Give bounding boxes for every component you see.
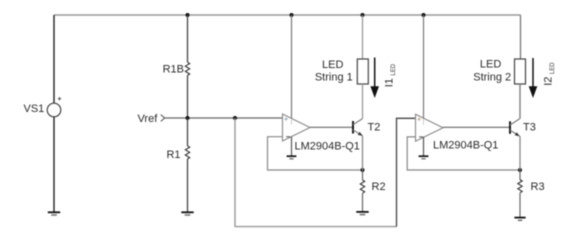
wire Vref to op-amp1 non-inverting input <box>165 117 283 119</box>
op-amp U2 <box>416 114 444 141</box>
wire T2 emitter down to node <box>362 136 364 170</box>
transistor T2 <box>353 119 363 136</box>
wire Vref feed to op-amp2: down, across bottom, up <box>235 118 397 227</box>
op-amp U1 <box>283 114 311 141</box>
wire emitter node to R3 <box>519 170 521 180</box>
wire op-amp1 V+ supply stem <box>291 15 293 119</box>
LED string 1 block <box>357 59 368 84</box>
ground op-amp2 <box>419 156 429 159</box>
wire LED string 2 to T3 collector <box>519 84 521 119</box>
svg-text:T3: T3 <box>523 122 536 134</box>
svg-text:VS1: VS1 <box>24 103 45 115</box>
ground R3 <box>514 218 525 221</box>
svg-text:Vref: Vref <box>138 113 159 125</box>
node emitter R2 junction <box>361 168 365 172</box>
node Vref divider junction <box>186 116 190 120</box>
wire R3 bottom lead <box>519 193 521 217</box>
ground R1 <box>181 212 193 215</box>
wire op-amp1 output to T2 base <box>310 126 353 128</box>
wire T3 emitter down to node <box>519 136 521 170</box>
wire op-amp2 output to T3 base <box>443 126 510 128</box>
svg-text:LM2904B-Q1: LM2904B-Q1 <box>433 140 498 152</box>
wire emitter node to R2 <box>362 170 364 180</box>
wire Vref rise to op-amp2 non-inverting input <box>397 118 416 226</box>
svg-text:LED: LED <box>480 59 501 71</box>
svg-text:LED: LED <box>322 59 343 71</box>
voltage source VS1 <box>47 103 61 117</box>
ground op-amp1 <box>287 156 297 159</box>
wire op-amp2 V- stem <box>423 137 425 156</box>
svg-text:T2: T2 <box>368 122 381 134</box>
Vref input port chevron <box>161 115 165 122</box>
wire R1 top lead <box>187 118 189 146</box>
svg-text:String 2: String 2 <box>473 71 511 83</box>
svg-text:LM2904B-Q1: LM2904B-Q1 <box>295 141 360 153</box>
node emitter R3 junction <box>518 168 522 172</box>
wire R2 bottom lead <box>362 193 364 211</box>
wire LED string 2 drop from rail <box>520 15 522 59</box>
ground R2 <box>356 212 368 215</box>
wire VS1 top lead <box>53 15 55 103</box>
LED string 2 block <box>515 59 526 84</box>
svg-text:R3: R3 <box>531 181 545 193</box>
current arrow I1 <box>370 58 379 99</box>
node Vref branch junction <box>233 116 237 120</box>
wire VS1 bottom lead <box>53 117 55 212</box>
wire R1B bottom lead to Vref node <box>187 75 189 118</box>
resistor R2 <box>360 180 364 193</box>
wire top supply rail <box>54 14 521 16</box>
wire op-amp1 feedback loop to emitter node <box>268 137 363 170</box>
wire LED string 1 to T2 collector <box>362 84 364 119</box>
svg-text:R1B: R1B <box>163 64 184 76</box>
VS1 plus polarity mark <box>58 97 61 100</box>
resistor R3 <box>518 180 522 193</box>
resistor R1 <box>185 146 189 159</box>
wire R1 bottom lead <box>187 159 189 212</box>
current arrow I2 <box>529 58 538 98</box>
wire LED string 1 top lead <box>362 15 364 59</box>
transistor T3 <box>510 119 520 136</box>
node junction rail R1B <box>186 13 190 17</box>
svg-text:String 1: String 1 <box>315 71 353 83</box>
svg-text:R1: R1 <box>166 149 180 161</box>
svg-text:R2: R2 <box>372 181 386 193</box>
ground VS1 <box>48 212 60 215</box>
wire op-amp2 V+ supply stem <box>423 15 425 119</box>
wire R1B top lead <box>187 15 189 62</box>
wire op-amp2 feedback loop to emitter node <box>407 137 520 170</box>
wire op-amp1 V- stem <box>291 137 293 156</box>
node junction rail op-amp2 V+ <box>422 13 426 17</box>
node junction rail op-amp1 V+ <box>290 13 294 17</box>
resistor R1B <box>185 62 189 75</box>
node junction rail LED string 1 <box>361 13 365 17</box>
